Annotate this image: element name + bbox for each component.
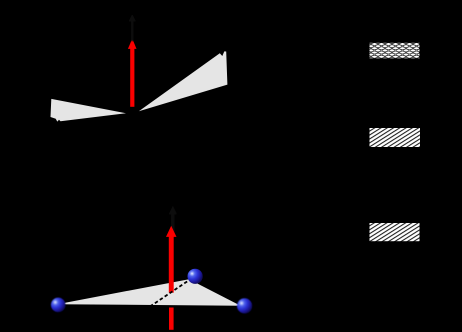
cantilever right beam [139, 51, 228, 111]
legend swatch crosshatch [370, 43, 420, 59]
legend swatch diagonal hatch 1 [370, 128, 421, 147]
faint black axis arrow above top red arrow [128, 14, 136, 41]
atom sphere right [237, 298, 252, 313]
atom sphere left [51, 298, 66, 313]
legend swatch diagonal hatch 2 [370, 223, 420, 241]
bottom red arrow upper part [166, 226, 177, 293]
cantilever left beam [51, 99, 127, 122]
faint black axis arrow behind bottom red arrow [169, 206, 177, 238]
atom sphere top [188, 269, 203, 284]
top red arrow [128, 39, 137, 107]
dashed hidden bond line [150, 279, 191, 307]
molecule plane triangle [57, 279, 240, 306]
bottom red arrow lower shaft (behind plane) [169, 308, 174, 330]
